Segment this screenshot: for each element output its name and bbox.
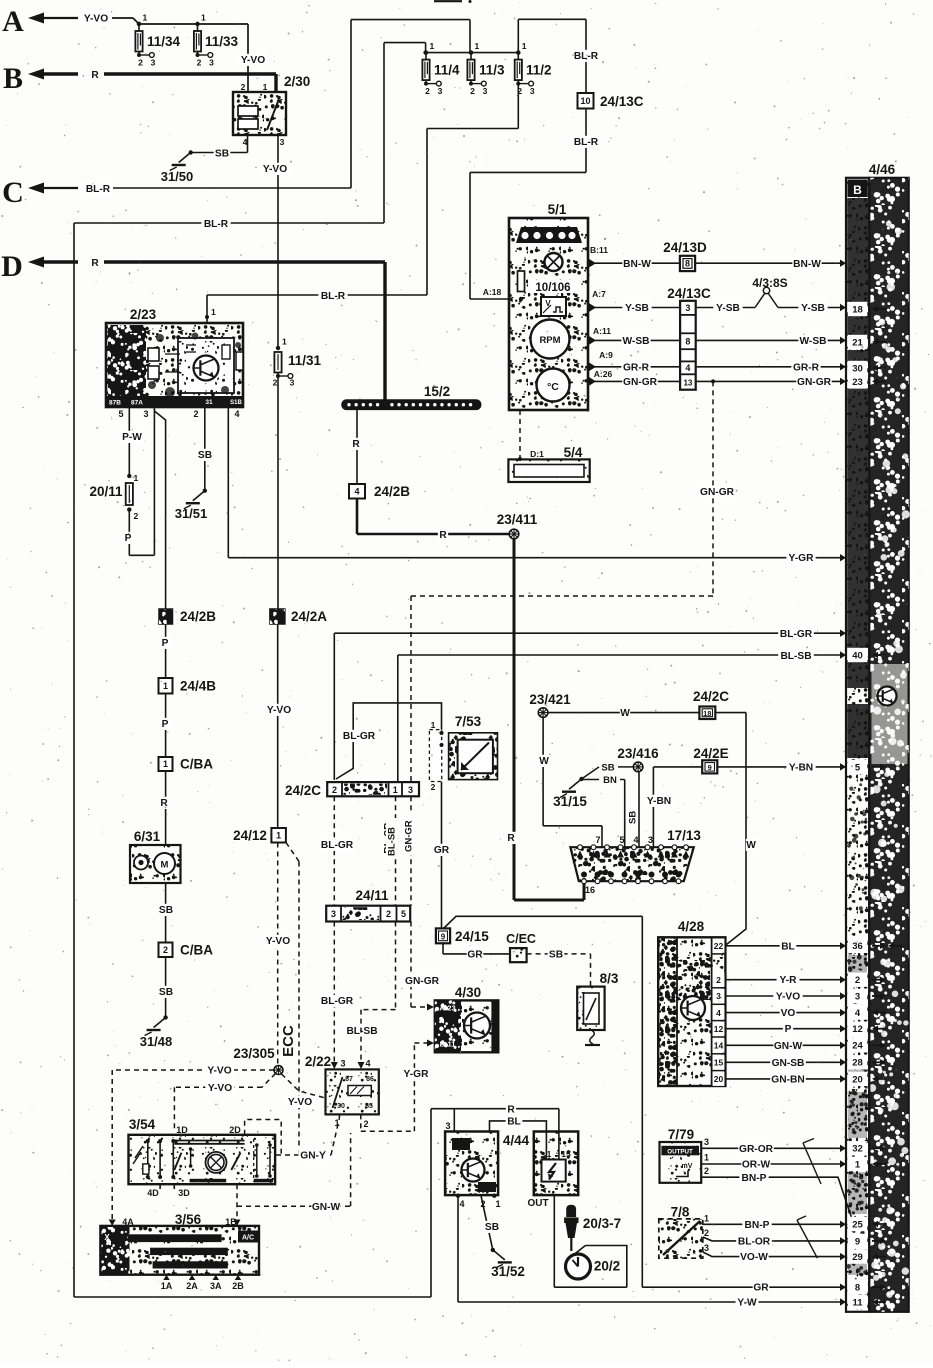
svg-text:A:18: A:18 (483, 287, 502, 297)
svg-text:BL-R: BL-R (574, 51, 599, 62)
svg-text:P: P (125, 533, 132, 544)
svg-text:2: 2 (704, 1166, 709, 1176)
svg-text:24/11: 24/11 (355, 888, 389, 903)
wire GR from 24/15 to bottom rail to 4/46 pin 8 (444, 916, 642, 928)
slider bars in 3/56 (128, 1234, 222, 1242)
clock 20/2 (566, 1254, 591, 1279)
wire BL in 4/44 (490, 1121, 547, 1160)
svg-text:18: 18 (703, 709, 711, 718)
3/54 internals (174, 1140, 244, 1142)
svg-text:4D: 4D (147, 1188, 159, 1198)
svg-text:2: 2 (138, 58, 143, 68)
svg-text:A:9: A:9 (599, 350, 613, 360)
wire BL-GR to 4/46 (334, 632, 846, 634)
wire R from bus 15/2 to 24/2B (356, 409, 358, 484)
fuse 11/33 (195, 22, 199, 26)
svg-text:87: 87 (345, 1076, 353, 1083)
lamp symbol in 5/1 (545, 253, 563, 271)
svg-text:1: 1 (163, 681, 168, 691)
wire Y-VO from A (81, 12, 110, 24)
svg-text:Y-SB: Y-SB (716, 303, 740, 314)
wire BL-SB to 4/46 pin 40 (398, 654, 846, 656)
svg-text:B: B (3, 62, 23, 95)
svg-text:GN-W: GN-W (312, 1202, 341, 1213)
svg-text:3: 3 (438, 86, 443, 96)
3/56 bottom pins (163, 1275, 169, 1280)
dashed wire Y-GR from 2/22 pin 2 to 4/30 B:11 (360, 1114, 362, 1131)
svg-text:86: 86 (366, 1076, 374, 1083)
dashed wire Y-VO to 3/56 pin 4A (112, 1069, 274, 1071)
svg-text:24: 24 (852, 1041, 863, 1052)
svg-text:W-SB: W-SB (623, 336, 650, 347)
svg-text:BL-R: BL-R (574, 137, 599, 148)
svg-text:11/34: 11/34 (147, 34, 181, 49)
svg-text:23/421: 23/421 (529, 692, 571, 707)
svg-text:15/2: 15/2 (424, 384, 450, 399)
dashed wire GN-W from 3/54 to 3/56 pin 1B and 2/22 (236, 1184, 238, 1226)
svg-text:W: W (620, 708, 630, 719)
svg-text:4/44: 4/44 (503, 1133, 530, 1148)
svg-text:OUTPUT: OUTPUT (667, 1148, 693, 1155)
svg-text:BL-OR: BL-OR (738, 1237, 771, 1248)
wire W from 23/421 to 24/2C pin 18 (548, 712, 699, 714)
svg-text:4/30: 4/30 (455, 985, 481, 1000)
wire GR-OR from 7/79 pin 3 to 4/46 pin 32 (701, 1147, 846, 1149)
svg-text:3: 3 (143, 409, 148, 419)
dashed wire 5/1 to 5/4 (519, 410, 521, 459)
svg-text:R: R (160, 798, 168, 809)
svg-text:A:7: A:7 (592, 289, 606, 299)
svg-text:13: 13 (683, 378, 692, 387)
svg-text:24/2C: 24/2C (285, 783, 321, 798)
svg-text:9: 9 (441, 932, 446, 941)
wire BL-OR from 7/8 pin 2 to 4/46 pin 9 (703, 1237, 846, 1241)
svg-text:BN-W: BN-W (623, 259, 651, 270)
svg-text:2D: 2D (229, 1125, 241, 1135)
svg-text:BL-SB: BL-SB (346, 1026, 377, 1037)
wire P (165, 624, 167, 678)
svg-text:31: 31 (205, 399, 213, 406)
svg-text:VO-W: VO-W (740, 1252, 768, 1263)
svg-text:Y-VO: Y-VO (266, 936, 290, 947)
svg-text:Y-VO: Y-VO (241, 55, 265, 66)
svg-text:5: 5 (855, 762, 861, 773)
wire W from 23/421 down to 17/13 pin 7 (542, 717, 544, 825)
svg-text:B:11: B:11 (590, 245, 608, 255)
wire Y-BN to 4/46 pin 5 (717, 766, 846, 768)
svg-text:87A: 87A (131, 400, 143, 407)
wire SB from 2/30 pin 4 (247, 135, 249, 153)
wire left border down to bottom rail (73, 223, 75, 1297)
svg-text:10: 10 (580, 96, 590, 106)
wire R from 24/2B to splice 23/411 (356, 499, 359, 535)
svg-text:BL: BL (507, 1117, 521, 1128)
wire Y-VO riser to relay 2/30 pin 2 (247, 24, 249, 92)
svg-text:6/31: 6/31 (134, 829, 161, 844)
svg-text:3: 3 (408, 785, 413, 795)
svg-text:Y-VO: Y-VO (776, 992, 800, 1003)
wire GR from 7/53 pin 2 to 24/15 (441, 782, 443, 929)
svg-text:1: 1 (282, 337, 287, 347)
svg-text:R: R (507, 833, 515, 844)
wire bottom rail left (74, 1296, 431, 1298)
svg-text:C: C (2, 176, 24, 209)
svg-text:GR-R: GR-R (623, 363, 650, 374)
svg-text:11/4: 11/4 (434, 62, 460, 77)
A/C label in 3/56 (238, 1231, 258, 1243)
svg-text:31/52: 31/52 (491, 1264, 525, 1279)
svg-text:GN-GR: GN-GR (797, 377, 832, 388)
svg-text:A/C: A/C (242, 1235, 254, 1242)
wire Y-VO down to 24/2A and 24/12 (277, 376, 279, 609)
svg-text:28: 28 (852, 1058, 863, 1069)
svg-text:SB: SB (601, 763, 614, 774)
svg-text:A:26: A:26 (594, 369, 613, 379)
wire P loop from fuse 20/11 to 2/23 pin 3 (128, 510, 130, 556)
svg-text:12: 12 (852, 1024, 863, 1035)
svg-text:11/33: 11/33 (205, 34, 239, 49)
svg-text:1: 1 (276, 830, 281, 840)
svg-text:Y-BN: Y-BN (789, 763, 813, 774)
svg-text:Y-SB: Y-SB (801, 303, 825, 314)
svg-text:X: X (104, 1233, 110, 1242)
svg-text:W: W (539, 756, 549, 767)
svg-text:Y-GR: Y-GR (404, 1069, 430, 1080)
svg-text:Y-VO: Y-VO (288, 1097, 312, 1108)
svg-text:1: 1 (855, 1159, 861, 1170)
svg-text:31/15: 31/15 (553, 794, 587, 809)
svg-text:1: 1 (547, 1149, 552, 1159)
svg-text:R: R (352, 439, 360, 450)
svg-text:1: 1 (263, 82, 268, 92)
connector 24/15 pin 9 (436, 928, 450, 943)
svg-text:GN-GR: GN-GR (623, 377, 658, 388)
svg-text:2: 2 (386, 909, 391, 919)
svg-text:BL: BL (781, 941, 795, 952)
svg-text:3: 3 (716, 991, 721, 1001)
svg-text:A:23: A:23 (439, 1004, 455, 1013)
wire BL-SB down to 24/2C bar pin 1 (397, 655, 399, 782)
svg-text:GN-GR: GN-GR (700, 487, 735, 498)
svg-text:W: W (746, 840, 756, 851)
svg-text:BL-GR: BL-GR (321, 996, 354, 1007)
svg-text:5/1: 5/1 (548, 202, 567, 217)
wire OR-W from 7/79 pin 1 to 4/46 pin 1 (701, 1163, 846, 1165)
svg-text:3D: 3D (178, 1188, 190, 1198)
svg-text:BN: BN (603, 775, 617, 786)
svg-text:P: P (785, 1024, 792, 1035)
svg-text:A:11: A:11 (593, 326, 611, 336)
svg-text:4: 4 (459, 1199, 464, 1209)
svg-text:Y-SB: Y-SB (625, 303, 649, 314)
wire Y-SB from 5/1 A:7 (589, 303, 596, 312)
svg-text:BL-GR: BL-GR (343, 731, 376, 742)
clock 20/2 box (585, 1246, 626, 1288)
svg-text:15: 15 (714, 1058, 724, 1068)
svg-text:D: D (1, 250, 23, 283)
svg-text:Y-VO: Y-VO (84, 14, 108, 25)
svg-text:24/13D: 24/13D (663, 240, 707, 255)
fuse 11/4 (424, 50, 428, 54)
wire P (165, 694, 167, 758)
svg-text:12: 12 (714, 1024, 724, 1034)
wire from 23/416 to 17/13 pin 4 (638, 772, 640, 848)
wire BL-GR down to 24/2C bar pin 2 (333, 633, 335, 780)
connector 24/2A (dark) (270, 609, 285, 624)
svg-text:SB: SB (198, 450, 212, 461)
svg-text:30: 30 (852, 363, 863, 374)
svg-text:GN-GR: GN-GR (405, 976, 440, 987)
svg-text:3: 3 (445, 1121, 450, 1131)
ground 31/50 (189, 150, 193, 154)
svg-text:5: 5 (619, 835, 624, 845)
svg-text:BL-R: BL-R (321, 291, 346, 302)
svg-text:SB: SB (549, 950, 563, 961)
svg-text:11/2: 11/2 (526, 62, 552, 77)
svg-text:24/4B: 24/4B (180, 679, 216, 694)
svg-text:4/28: 4/28 (678, 919, 705, 934)
svg-text:2: 2 (197, 58, 202, 68)
svg-text:SB: SB (215, 149, 229, 160)
svg-text:8/3: 8/3 (600, 971, 619, 986)
svg-text:3: 3 (704, 1243, 709, 1253)
svg-text:M: M (161, 860, 169, 871)
svg-text:2: 2 (332, 785, 337, 795)
dashed wire GN-GR branch to 24/2C bar (711, 379, 715, 383)
svg-text:2: 2 (425, 86, 430, 96)
svg-text:Y-BN: Y-BN (647, 796, 671, 807)
svg-text:GR-R: GR-R (793, 363, 820, 374)
svg-text:Y-GR: Y-GR (789, 553, 815, 564)
svg-text:1: 1 (211, 307, 216, 317)
svg-text:3: 3 (340, 1059, 345, 1069)
svg-text:BL-SB: BL-SB (780, 651, 811, 662)
svg-text:BN-P: BN-P (742, 1173, 767, 1184)
svg-text:1: 1 (163, 759, 168, 769)
svg-text:BN-W: BN-W (793, 259, 821, 270)
svg-text:mV: mV (682, 1163, 693, 1170)
svg-text:7/79: 7/79 (668, 1127, 694, 1142)
4/44 pins (456, 1194, 460, 1198)
svg-text:2: 2 (470, 86, 475, 96)
svg-text:C/BA: C/BA (180, 757, 213, 772)
svg-text:23/411: 23/411 (497, 512, 538, 527)
svg-text:1: 1 (201, 13, 206, 23)
svg-text:24/12: 24/12 (233, 828, 267, 843)
svg-text:5: 5 (118, 409, 123, 419)
svg-text:11: 11 (852, 1297, 863, 1308)
svg-text:Y-VO: Y-VO (207, 1066, 231, 1077)
svg-text:4/46: 4/46 (869, 162, 896, 177)
svg-text:20: 20 (852, 1074, 863, 1085)
svg-text:23/416: 23/416 (617, 746, 659, 761)
wire BL-R riser to top bus (350, 20, 352, 188)
wire BN-W to 4/46 (695, 262, 846, 264)
svg-text:P-W: P-W (122, 432, 142, 443)
scan artifact top edge (434, 0, 462, 2)
wire GR from 24/15 to C/EC (442, 943, 444, 954)
svg-text:GN-SB: GN-SB (772, 1058, 805, 1069)
svg-text:20: 20 (714, 1074, 724, 1084)
svg-text:3: 3 (483, 86, 488, 96)
svg-text:3: 3 (530, 86, 535, 96)
svg-text:8: 8 (685, 337, 690, 347)
svg-text:5: 5 (401, 909, 406, 919)
svg-text:2/23: 2/23 (130, 307, 157, 322)
svg-text:31/51: 31/51 (175, 506, 208, 521)
svg-text:7/53: 7/53 (455, 714, 482, 729)
svg-text:30: 30 (337, 1103, 345, 1110)
svg-text:2: 2 (517, 86, 522, 96)
svg-text:V: V (545, 299, 551, 308)
4/46 pin numbers (848, 302, 868, 316)
svg-text:1A: 1A (161, 1281, 173, 1291)
svg-text:°C: °C (547, 381, 559, 393)
wire SB from 2/23 pin 2 (204, 407, 206, 491)
svg-text:31/48: 31/48 (140, 1034, 173, 1049)
svg-text:RPM: RPM (539, 335, 560, 346)
svg-text:R: R (91, 70, 99, 81)
wire VO-W from 7/8 pin 3 to 4/46 pin 29 (703, 1252, 846, 1257)
ground below 8/3 (590, 1030, 595, 1044)
fuse symbol in 5/1 (518, 271, 525, 292)
dashed wire BL-SB 24/2C to 24/11 to relay 2/22 pin 4 (395, 796, 397, 905)
svg-text:3: 3 (685, 303, 690, 313)
svg-text:2: 2 (273, 378, 278, 388)
wire SB (165, 957, 167, 1018)
svg-text:GN-BN: GN-BN (771, 1074, 804, 1085)
wire BL-R to fuse 11/4 feed (74, 222, 384, 224)
wire SB from 4/44 pin 2 (481, 1196, 493, 1250)
transistor symbol in 2/23 (191, 353, 222, 384)
svg-text:R: R (91, 258, 99, 269)
svg-text:1: 1 (475, 41, 480, 51)
connector 24/2B (dark) (159, 609, 173, 624)
svg-text:22: 22 (714, 941, 724, 951)
dashed wire SB from C/EC to sensor 8/3 (527, 953, 591, 955)
svg-text:P: P (162, 638, 169, 649)
wire Y-VO from 2/30 pin 3 down to fuse 11/31 (277, 135, 279, 348)
svg-text:BL-R: BL-R (86, 184, 111, 195)
svg-text:4: 4 (855, 1008, 861, 1019)
svg-text:Y-R: Y-R (780, 975, 798, 986)
connector C/BA pin 1 (159, 757, 173, 771)
svg-text:11/3: 11/3 (479, 62, 505, 77)
fuse 11/31 (276, 346, 280, 350)
svg-text:10/106: 10/106 (535, 282, 570, 294)
svg-text:18: 18 (852, 304, 863, 315)
2/23 terminal strip labels (106, 396, 243, 407)
connector 24/2B pin 4 (349, 484, 365, 499)
svg-text:85: 85 (365, 1103, 373, 1110)
svg-text:31/50: 31/50 (161, 169, 194, 184)
svg-text:2/22: 2/22 (305, 1054, 331, 1069)
wire BL-R from 11/2 pin1 to 24/13C (517, 19, 519, 52)
transistor symbol in 4/30 (464, 1013, 490, 1039)
svg-text:20/11: 20/11 (89, 484, 123, 499)
svg-text:Y-W: Y-W (737, 1298, 757, 1309)
wire R (thick) from B to relay 2/30 pin 1 (90, 69, 100, 81)
svg-text:1D: 1D (176, 1125, 188, 1135)
ignition coil 4/44 right box (534, 1132, 578, 1196)
strip scan blotches (847, 198, 868, 302)
svg-text:3: 3 (855, 991, 860, 1002)
svg-text:2: 2 (716, 975, 721, 985)
svg-text:5/4: 5/4 (564, 445, 583, 460)
svg-text:GR-OR: GR-OR (739, 1144, 774, 1155)
svg-text:3A: 3A (210, 1281, 222, 1291)
svg-text:2: 2 (134, 511, 139, 521)
svg-text:24/2C: 24/2C (693, 689, 729, 704)
svg-text:1: 1 (704, 1153, 709, 1163)
svg-text:2: 2 (855, 975, 860, 986)
svg-text:1: 1 (704, 1214, 709, 1224)
svg-text:4: 4 (716, 1008, 721, 1018)
wire GN-GR from 5/1 A:26 to 4/46 pin 23 (589, 377, 596, 386)
svg-text:20/3-7: 20/3-7 (583, 1216, 621, 1231)
lamp symbol in 3/54 (206, 1152, 227, 1173)
wire Y-GR from 2/23 pin 4 to 4/46 (227, 407, 229, 558)
svg-text:4: 4 (234, 409, 239, 419)
svg-text:4/3:8S: 4/3:8S (752, 276, 787, 290)
svg-text:24/2E: 24/2E (693, 746, 728, 761)
svg-text:GN-Y: GN-Y (300, 1151, 326, 1162)
svg-text:A: A (2, 5, 24, 38)
svg-text:Y-VO: Y-VO (263, 164, 287, 175)
svg-text:1: 1 (431, 720, 436, 730)
wire BL-R from 24/13C to 5/1 pin A:18 (585, 109, 587, 173)
wire R to ignition 4/44 (431, 1108, 559, 1110)
svg-text:3: 3 (151, 58, 156, 68)
svg-text:3: 3 (209, 58, 214, 68)
svg-text:SB: SB (628, 811, 639, 824)
svg-text:87B: 87B (109, 400, 121, 407)
svg-text:1: 1 (143, 13, 148, 23)
svg-text:7/8: 7/8 (671, 1205, 690, 1220)
svg-text:9: 9 (708, 763, 712, 772)
svg-text:SB: SB (485, 1222, 499, 1233)
svg-text:2/30: 2/30 (284, 74, 310, 89)
wire R (thick) from 23/411 to 17/13 pin 16 (513, 539, 516, 901)
svg-text:SB: SB (159, 987, 173, 998)
svg-text:S1B: S1B (230, 400, 242, 406)
svg-text:24/2A: 24/2A (291, 609, 327, 624)
svg-text:ECC: ECC (280, 1025, 297, 1057)
tachometer RPM in 5/1 (531, 320, 570, 359)
fuse 11/2 (516, 50, 520, 54)
wire Y-W from 4/44 pin 4 to 4/46 pin 11 (457, 1196, 459, 1302)
svg-text:4: 4 (354, 486, 359, 496)
svg-text:VO: VO (781, 1008, 796, 1019)
svg-text:2: 2 (163, 945, 168, 955)
wire Y-BN from 17/13 pin 3 to 24/2E pin 9 (652, 767, 654, 848)
connector C/BA pin 2 (159, 943, 173, 958)
svg-text:32: 32 (852, 1144, 863, 1155)
svg-text:3: 3 (290, 378, 295, 388)
connector 24/13C pin 10 (578, 93, 594, 109)
wire OUT from 4/44 coil (553, 1195, 555, 1287)
wire fuse top bus (139, 23, 248, 25)
fuse 11/3 (469, 50, 473, 54)
svg-text:GR: GR (753, 1283, 769, 1294)
svg-text:40: 40 (852, 650, 863, 661)
svg-text:C/EC: C/EC (506, 932, 536, 946)
dashed wire Y-VO from 24/12 to splice 23/305 (277, 843, 279, 1066)
svg-text:D:1: D:1 (530, 449, 544, 459)
svg-text:17/13: 17/13 (667, 828, 701, 843)
wires 4/28 to 4/46: BL Y-R Y-VO VO P GN-W GN-SB GN-BN (725, 945, 846, 947)
svg-text:24/2B: 24/2B (374, 484, 410, 499)
